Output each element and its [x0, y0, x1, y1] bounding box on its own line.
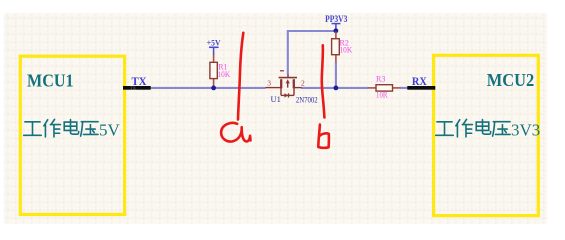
pin 3 lead	[265, 87, 281, 89]
svg-text:10K: 10K	[340, 45, 353, 54]
red ink stroke b (long)	[322, 45, 325, 117]
channel right vertical	[293, 79, 295, 88]
hanzi 作	[456, 119, 473, 136]
junction dot at PP3V3	[334, 28, 339, 33]
svg-text:3: 3	[267, 78, 271, 87]
svg-text:R3: R3	[376, 74, 385, 83]
resistor R2 leads	[335, 32, 337, 39]
port TX black bar	[123, 86, 151, 90]
red ink letter b	[318, 125, 329, 148]
hanzi 作	[44, 119, 61, 136]
pin 2 lead	[294, 87, 302, 89]
pin 1 number dash	[280, 70, 284, 72]
resistor R1 body	[210, 62, 217, 78]
arrow stem	[287, 83, 289, 88]
gate lead	[287, 74, 289, 77]
svg-text:3V3: 3V3	[511, 121, 540, 140]
resistor R3 body	[376, 85, 393, 91]
junction dot at R2/main wire	[334, 86, 339, 91]
body bottom bar	[281, 94, 294, 96]
svg-text:U1: U1	[271, 94, 281, 104]
diode cathode bar	[288, 93, 290, 97]
wire gate net up and over to PP3V3 junction	[288, 31, 336, 75]
diode anode triangle	[284, 93, 288, 97]
svg-text:PP3V3: PP3V3	[325, 14, 348, 24]
MCU2 block box	[434, 55, 539, 215]
red ink letter a	[221, 123, 250, 142]
port RX black bar	[407, 86, 435, 90]
svg-text:2: 2	[301, 78, 305, 87]
svg-text:+5V: +5V	[207, 38, 221, 48]
arrow head	[286, 79, 290, 83]
svg-text:TX: TX	[132, 76, 148, 88]
MCU1 block box	[20, 56, 124, 214]
hanzi 工 (MCU1 text)	[24, 122, 41, 135]
svg-text:5V: 5V	[99, 121, 121, 140]
hanzi 电	[64, 120, 78, 135]
body left vertical	[280, 88, 282, 96]
transistor Q1 2N7002 symbol	[265, 71, 301, 98]
wire mosfet pin2 to R3	[301, 87, 368, 89]
wire R2 bottom to main wire	[335, 62, 337, 87]
wire TX to junction to mosfet pin3	[151, 87, 266, 89]
svg-text:MCU1: MCU1	[27, 71, 74, 91]
resistor R3 leads	[368, 87, 376, 89]
svg-text:10K: 10K	[218, 70, 231, 79]
hanzi 电	[476, 120, 490, 135]
hanzi 工 (MCU2 text)	[436, 122, 453, 135]
red ink stroke a (long)	[238, 33, 243, 120]
junction dot at R1/main wire	[211, 86, 216, 91]
body right vertical	[293, 88, 295, 96]
hanzi 压	[493, 122, 510, 136]
gate bar	[279, 77, 297, 79]
resistor R2 body	[332, 39, 340, 55]
wire R3 to RX port	[400, 87, 408, 89]
resistor R1 leads	[213, 54, 215, 62]
svg-text:10R: 10R	[376, 90, 388, 99]
channel left vertical	[280, 79, 282, 88]
svg-text:2N7002: 2N7002	[296, 95, 318, 105]
svg-text:MCU2: MCU2	[487, 70, 535, 90]
hanzi 压	[81, 122, 98, 136]
svg-text:RX: RX	[412, 76, 428, 88]
